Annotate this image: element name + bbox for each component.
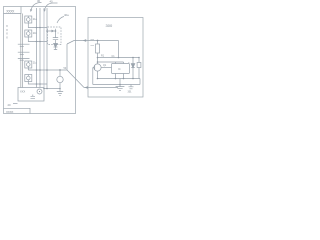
sense bus line 40 — [46, 8, 48, 89]
arrowhead on output wire — [83, 39, 86, 42]
arrowhead of leader 30 — [30, 9, 32, 11]
wire bus40 to C1 with arrow — [47, 30, 56, 32]
battery cell B1 — [18, 44, 30, 46]
junction dot at C1 top — [46, 30, 56, 32]
small symbol inside monitor box — [31, 95, 36, 99]
lower node wire — [28, 69, 67, 71]
junction dots on return rail — [97, 78, 134, 80]
svg-text:40a: 40a — [64, 13, 69, 17]
drain lead of Q2 to IC — [101, 67, 111, 69]
svg-text:X: X — [6, 35, 8, 39]
return rail wire — [98, 78, 141, 80]
junction dots on wire y27.5 — [36, 27, 41, 29]
junction dot rail — [118, 57, 120, 59]
junction dots on wire y41.5 — [36, 41, 41, 43]
resistor R1 — [96, 41, 100, 64]
diagonal wire to output minus — [67, 70, 84, 88]
leader arc to 40a — [57, 17, 64, 24]
supply rail wire — [98, 57, 140, 59]
ground under Q1 — [57, 89, 63, 96]
svg-text:50: 50 — [64, 67, 67, 70]
svg-text:x: x — [128, 62, 130, 64]
leader line from numeral 20 — [13, 103, 18, 105]
svg-text:xxx: xxx — [91, 45, 95, 47]
battery cell B2 — [18, 52, 30, 54]
battery pack block 100 outline — [4, 7, 76, 114]
sense bus line 31 — [39, 8, 41, 88]
load block 300 outline — [88, 18, 143, 98]
svg-text:XXXX: XXXX — [6, 110, 13, 114]
ground G1 — [116, 79, 125, 91]
junction dot at R1 bottom node — [97, 40, 99, 63]
junction dot node n1 — [36, 69, 61, 71]
wire from S3 to buses — [27, 68, 29, 70]
arrowhead on output minus wire — [85, 86, 88, 89]
leader arc to bus 30 — [31, 2, 42, 11]
svg-text:XXX: XXX — [20, 89, 25, 93]
cell switch unit box S4 — [25, 75, 32, 82]
junction dots on wire y84 — [36, 83, 41, 85]
sense bus line 32 (faint) — [43, 8, 45, 88]
monitor unit box 20 (bottom) — [18, 88, 44, 102]
diode D0 below C1 — [54, 44, 58, 50]
wire from S4 to buses — [28, 82, 47, 85]
leader arc to bus 40 — [44, 3, 57, 11]
svg-text:30: 30 — [37, 0, 41, 3]
tap wire vertical — [66, 44, 68, 70]
output wire plus to block 300 — [74, 40, 119, 42]
junction dots on rail — [132, 57, 140, 59]
lower return wire — [93, 79, 140, 85]
controller IC U1 — [112, 64, 130, 74]
wire from monitor box to Q1 foot — [44, 88, 60, 90]
svg-text:R1: R1 — [101, 55, 105, 58]
svg-text:40: 40 — [50, 0, 54, 3]
svg-text:IC: IC — [118, 67, 121, 71]
wire from S2 to buses — [28, 37, 47, 42]
diode D1 — [131, 58, 135, 79]
IC top pins — [98, 62, 124, 64]
IC bottom pins — [116, 74, 124, 79]
small cap C2 — [129, 85, 134, 89]
bottom label box of battery pack — [4, 108, 31, 113]
sense bus line 30 — [36, 8, 38, 88]
protection sub-block dashed box 40a — [48, 27, 62, 45]
cell switch unit box S2 — [25, 30, 32, 37]
switch transistor Q1 — [57, 70, 63, 89]
battery stack rail (double line) — [21, 14, 23, 88]
diode D2 (zener) — [137, 58, 141, 79]
junction dots monitor wire — [43, 88, 61, 90]
battery cell B3 — [18, 59, 30, 61]
svg-text:300: 300 — [106, 23, 113, 28]
capacitor C1 inside 40a — [53, 29, 58, 44]
cell switch unit box S3 — [25, 61, 32, 68]
junction dot ground stem — [119, 84, 121, 86]
title box of battery pack — [4, 7, 22, 14]
pass transistor Q2 — [94, 64, 101, 79]
diagonal wire to output plus — [67, 41, 74, 45]
svg-text:x: x — [58, 33, 60, 35]
svg-text:301: 301 — [128, 90, 133, 93]
svg-text:Q1: Q1 — [103, 64, 107, 67]
arrowhead of leader 40 — [44, 9, 46, 11]
svg-text:20: 20 — [8, 103, 12, 107]
svg-text:XXXX: XXXX — [6, 9, 15, 13]
output wire minus to block 300 — [84, 87, 118, 89]
gate lead of Q2 — [93, 68, 94, 85]
rail drop from top edge — [118, 41, 120, 58]
wire from S1 to buses — [28, 23, 47, 28]
cell switch unit box S1 — [25, 16, 32, 23]
